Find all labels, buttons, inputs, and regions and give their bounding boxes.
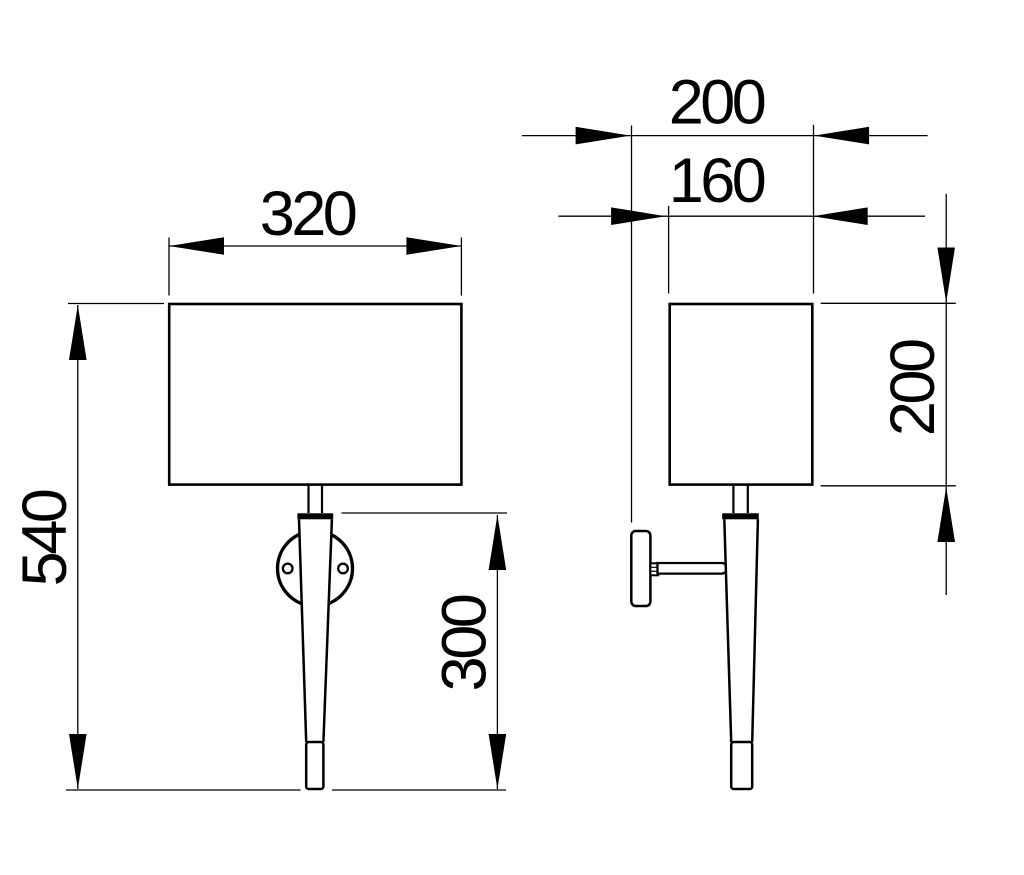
dimension 160: right arrowhead bbox=[813, 207, 868, 225]
dimension 300: bottom extension line (right of stem tip) bbox=[332, 789, 506, 791]
side view: bottom tip finial bbox=[731, 742, 752, 789]
svg-text:320: 320 bbox=[260, 179, 356, 249]
front view: torch top cap bbox=[297, 513, 333, 519]
dimension 200 right: bottom extension line bbox=[821, 485, 956, 487]
dimension 540: bottom extension line (left of stem tip) bbox=[66, 789, 301, 791]
dimension 300: top arrowhead bbox=[489, 515, 507, 570]
side view: connector boss bbox=[650, 563, 658, 575]
dimension 160: left arrowhead bbox=[611, 207, 666, 225]
dimension 200 top: right arrowhead (outside, pointing left) bbox=[814, 127, 869, 145]
front view: lamp holder neck bbox=[309, 485, 323, 513]
dimension 540: top arrowhead bbox=[69, 305, 87, 360]
dimension 200 right (shade height): top extension line bbox=[821, 302, 956, 304]
dimension 540: value label bbox=[10, 490, 80, 586]
dimension 540 (overall height): top extension line bbox=[68, 303, 164, 305]
dimension 300: dimension line bbox=[496, 515, 498, 789]
side view: support arm bbox=[658, 563, 727, 574]
dimension 320: left arrowhead bbox=[169, 237, 224, 255]
dimension 540: dimension line bbox=[77, 305, 79, 789]
front view: tapered torch body bbox=[298, 518, 333, 743]
front view: right screw hole bbox=[338, 564, 348, 574]
dimension 300: bottom arrowhead bbox=[489, 734, 507, 789]
front view: bottom tip finial bbox=[306, 742, 323, 789]
svg-text:300: 300 bbox=[429, 595, 499, 691]
svg-text:200: 200 bbox=[878, 340, 948, 436]
side view extension line: shade front (160 left) bbox=[668, 206, 670, 294]
dimension 300: value label bbox=[429, 595, 499, 691]
dimension 300 (stem height): top extension line bbox=[342, 512, 508, 514]
dimension 320: right arrowhead bbox=[406, 237, 461, 255]
dimension 200 right: value label bbox=[878, 340, 948, 436]
dimension 200 top (side overall depth): dimension line bbox=[522, 135, 928, 137]
dimension 540: bottom arrowhead bbox=[69, 734, 87, 789]
dimension 200 top: left arrowhead (outside, pointing right) bbox=[576, 127, 631, 145]
front view: wall mounting plate (circle) bbox=[278, 531, 353, 606]
side view: lamp holder neck bbox=[733, 485, 747, 513]
side view: wall plate bbox=[631, 531, 650, 606]
side view: tapered torch body bbox=[724, 518, 759, 743]
dimension 200 right: top arrowhead (outside, pointing down) bbox=[937, 248, 955, 303]
side view extension line: shade outer (shared right) bbox=[813, 125, 815, 294]
dimension 200 right: dimension line bbox=[945, 194, 947, 595]
svg-text:540: 540 bbox=[10, 490, 80, 586]
side view: lamp shade bbox=[670, 304, 813, 485]
dimension 320 (front shade width): extension lines bbox=[169, 238, 461, 296]
front view: lamp shade bbox=[169, 304, 461, 485]
side view: torch top cap bbox=[722, 513, 759, 519]
dimension 320: dimension line bbox=[169, 245, 461, 247]
dimension 200 right: bottom arrowhead (outside, pointing up) bbox=[937, 487, 955, 542]
svg-text:160: 160 bbox=[669, 146, 765, 216]
dimension 160 (shade depth): dimension line bbox=[558, 215, 925, 217]
side view extension line: wall plane bbox=[631, 126, 633, 523]
svg-text:200: 200 bbox=[669, 68, 765, 138]
front view: left screw hole bbox=[283, 564, 293, 574]
